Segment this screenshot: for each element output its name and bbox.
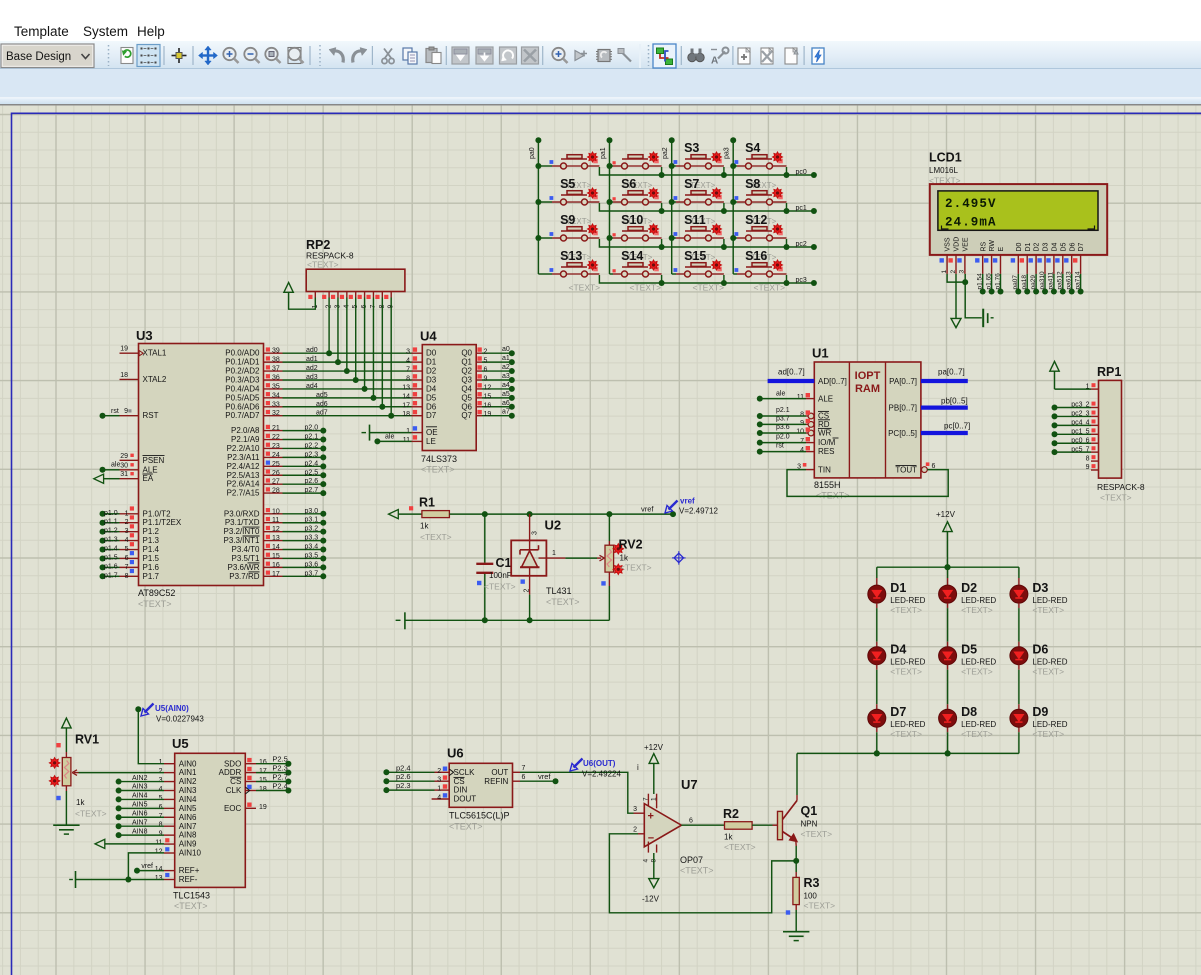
svg-text:P2.3: P2.3 [272,764,287,773]
terminal arrow at U5 AIN9 [105,843,164,845]
svg-text:6: 6 [689,818,693,825]
svg-text:<TEXT>: <TEXT> [890,667,922,677]
svg-text:7: 7 [159,813,163,820]
wire p2.0 [283,430,322,432]
svg-text:1: 1 [941,270,948,274]
svg-text:7: 7 [406,367,410,374]
svg-text:15: 15 [259,777,267,784]
resistor R3 [793,877,799,904]
svg-text:3: 3 [159,777,163,784]
svg-text:pc1: pc1 [796,205,807,212]
svg-text:vref: vref [641,504,654,513]
svg-text:2: 2 [633,826,637,833]
wire ad7 [283,415,412,417]
svg-text:8155H: 8155H [814,480,841,490]
svg-text:19: 19 [484,411,492,418]
svg-text:17: 17 [272,571,280,578]
IC U6 TLC5615 body [449,763,512,807]
svg-text:U6(OUT): U6(OUT) [583,759,616,768]
svg-text:-12V: -12V [642,895,660,904]
svg-text:9: 9 [484,375,488,382]
svg-text:<TEXT>: <TEXT> [421,465,455,475]
wire p1.2 [104,531,120,533]
wire ale to U3 ALE [104,469,120,471]
svg-text:6: 6 [522,774,526,781]
svg-text:p2.3: p2.3 [305,451,319,458]
U1 pin TOUT [922,467,928,473]
bus ad[0..7] into U1 AD[0..7] [768,379,815,383]
svg-text:AIN10: AIN10 [179,849,202,858]
svg-text:15: 15 [272,553,280,560]
svg-text:26: 26 [272,470,280,477]
svg-text:TLC1543: TLC1543 [173,891,210,901]
svg-text:<TEXT>: <TEXT> [804,901,836,911]
wire U5 REF- to ground [76,879,165,881]
wire RP2 pin6 to ad4 [364,298,366,389]
svg-text:pa1: pa1 [600,147,607,159]
svg-text:p1.6: p1.6 [104,563,118,570]
svg-text:Q2: Q2 [461,367,472,376]
svg-text:19: 19 [120,346,128,353]
U5 pin REF+ [164,870,175,872]
U5 pin AIN10 [164,852,175,854]
svg-text:P3.1/TXD: P3.1/TXD [225,518,260,527]
svg-text:18: 18 [120,372,128,379]
svg-text:9: 9 [159,831,163,838]
svg-text:4: 4 [125,537,129,544]
svg-text:p2.5: p2.5 [305,469,319,476]
svg-text:Q1: Q1 [461,358,472,367]
svg-text:<TEXT>: <TEXT> [890,605,922,615]
svg-text:pb[0..5]: pb[0..5] [941,397,968,406]
svg-text:EOC: EOC [224,804,242,813]
svg-text:AIN0: AIN0 [179,759,197,768]
LED D3 [1018,567,1020,578]
svg-text:REF-: REF- [179,875,198,884]
svg-text:<TEXT>: <TEXT> [569,283,601,293]
svg-text:3: 3 [959,270,966,274]
svg-text:D4: D4 [890,643,906,657]
wire AIN4 [121,798,164,800]
svg-text:VEE: VEE [963,237,970,251]
svg-text:Q0: Q0 [461,349,472,358]
svg-text:+: + [648,811,654,823]
push button S3 [672,165,676,167]
svg-text:1k: 1k [620,554,629,563]
svg-text:S4: S4 [745,141,760,155]
wire AIN5 [121,807,164,809]
svg-text:LED-RED: LED-RED [1032,720,1067,729]
wire AIN2 [121,781,164,783]
svg-text:D1: D1 [1025,242,1032,251]
svg-text:P1.7: P1.7 [143,572,160,581]
svg-text:P3.5/T1: P3.5/T1 [231,554,260,563]
svg-text:9: 9 [800,420,804,427]
svg-text:Q3: Q3 [461,375,472,384]
svg-text:CS: CS [454,777,465,786]
svg-text:U5(AIN0): U5(AIN0) [155,704,189,713]
svg-text:P0.3/AD3: P0.3/AD3 [225,375,260,384]
svg-text:System: System [83,24,128,39]
toolbar [0,41,1201,69]
svg-text:1: 1 [159,759,163,766]
svg-text:Q7: Q7 [461,411,472,420]
svg-text:AIN4: AIN4 [132,793,148,800]
wire LCD VDD to ground [955,274,957,319]
svg-text:1: 1 [651,797,658,801]
svg-text:4: 4 [406,358,410,365]
svg-text:XTAL2: XTAL2 [143,375,167,384]
svg-text:2: 2 [484,349,488,356]
svg-text:<TEXT>: <TEXT> [890,729,922,739]
svg-text:TIN: TIN [818,466,831,475]
svg-text:ad6: ad6 [316,401,328,408]
wire ad6 [283,406,412,408]
U5 pin CLK / wire P2.4 [245,790,256,792]
svg-text:PSEN: PSEN [143,456,165,465]
wire p2.7 [283,492,322,494]
svg-text:36: 36 [272,374,280,381]
wire ad2 [283,370,412,372]
svg-text:2: 2 [437,768,441,775]
svg-text:PC[0..5]: PC[0..5] [888,429,917,438]
svg-text:P1.0/T2: P1.0/T2 [143,509,172,518]
U4 pin Q6 / wire a6 [476,406,482,408]
svg-text:p1.1: p1.1 [104,519,118,526]
power -12V to U7 pin 4 [647,842,649,853]
svg-text:3: 3 [633,806,637,813]
svg-text:C1: C1 [496,556,512,570]
svg-text:p1.2: p1.2 [104,528,118,535]
wire p3.2 [283,531,322,533]
RP1 pin 3 [1091,415,1099,417]
U1 pin TIN [806,469,814,471]
svg-text:34: 34 [272,392,280,399]
wire AIN8 [121,834,164,836]
svg-text:DIN: DIN [454,786,468,795]
svg-text:AIN3: AIN3 [179,786,197,795]
svg-text:AIN6: AIN6 [179,813,197,822]
svg-text:V=0.0227943: V=0.0227943 [156,715,204,724]
svg-text:p2.0: p2.0 [776,434,790,441]
LED D2 [947,567,949,578]
svg-text:S12: S12 [745,213,767,227]
svg-text:VSS: VSS [945,237,952,251]
wire pc4 to RP1 [1056,424,1091,426]
U3 right pins P2 [264,430,283,432]
svg-text:P1.5: P1.5 [143,554,160,563]
svg-text:D2: D2 [426,367,437,376]
wire p2.3 [283,456,322,458]
svg-text:D4: D4 [1052,242,1059,251]
U4 pin D3 [412,379,423,381]
svg-text:S3: S3 [684,141,699,155]
svg-text:D4: D4 [426,384,437,393]
svg-text:AIN2: AIN2 [132,775,148,782]
voltage probe U6(OUT) [574,759,583,768]
svg-text:S16: S16 [745,249,767,263]
page selector combo [1,44,94,68]
svg-text:39: 39 [272,348,280,355]
svg-text:9: 9 [1086,464,1090,471]
svg-text:D9: D9 [1032,705,1048,719]
wire vref to U5 REF+ [139,870,164,872]
svg-text:U3: U3 [136,328,153,343]
svg-text:ad3: ad3 [306,374,318,381]
U4 pin D6 [412,406,423,408]
svg-text:pc2: pc2 [796,241,807,248]
wire pc3 to RP1 [1056,407,1091,409]
svg-text:P2.3/A11: P2.3/A11 [227,453,260,462]
svg-text:ad1: ad1 [306,356,318,363]
svg-text:CLK: CLK [226,786,242,795]
svg-text:11: 11 [797,394,804,401]
svg-text:P0.7/AD7: P0.7/AD7 [225,411,260,420]
svg-text:R2: R2 [723,807,739,821]
svg-text:p2.6: p2.6 [396,772,411,781]
svg-text:19: 19 [259,804,267,811]
svg-text:P2.5: P2.5 [272,755,287,764]
svg-text:a0: a0 [502,346,510,353]
U5 pin AIN9 [164,843,175,845]
svg-text:TL431: TL431 [546,586,572,596]
svg-text:p2.0: p2.0 [305,425,319,432]
svg-text:a3: a3 [502,373,510,380]
svg-text:24: 24 [272,452,280,459]
U7 pin 3 (+) [634,812,645,814]
U4 pin Q2 / wire a2 [476,370,482,372]
svg-text:p3.5: p3.5 [305,552,319,559]
svg-text:XTAL1: XTAL1 [143,349,167,358]
svg-text:p2.4: p2.4 [396,763,411,772]
svg-text:p2.3: p2.3 [396,781,411,790]
svg-text:1k: 1k [420,522,429,531]
wire p3.1 [283,522,322,524]
svg-text:R1: R1 [419,496,435,510]
transistor Q1 NPN [778,811,783,839]
svg-text:P2.2/A10: P2.2/A10 [227,444,260,453]
svg-text:AIN6: AIN6 [132,810,148,817]
svg-text:LED-RED: LED-RED [961,658,996,667]
svg-text:AIN7: AIN7 [132,819,148,826]
svg-text:D8: D8 [961,705,977,719]
svg-text:U2: U2 [545,518,562,533]
RP1 pin 8 [1091,460,1099,462]
svg-text:7: 7 [800,438,804,445]
wire RP2 pin9 to ad7 [390,298,392,416]
svg-text:<TEXT>: <TEXT> [307,259,339,269]
svg-text:100: 100 [804,892,818,901]
svg-text:P0.2/AD2: P0.2/AD2 [225,367,260,376]
wire pc2 to RP1 [1056,415,1091,417]
svg-text:<TEXT>: <TEXT> [961,729,993,739]
svg-text:a2: a2 [502,364,510,371]
U4 pin D4 [412,388,423,390]
svg-text:LED-RED: LED-RED [890,720,925,729]
LED D8 [947,665,949,670]
svg-text:17: 17 [259,768,267,775]
svg-text:<TEXT>: <TEXT> [75,809,107,819]
svg-text:P0.6/AD6: P0.6/AD6 [225,402,260,411]
svg-text:Q4: Q4 [461,384,472,393]
wire pc1 to RP1 [1056,433,1091,435]
svg-text:8: 8 [125,573,129,580]
svg-text:D7: D7 [890,705,906,719]
U4 pin Q4 / wire a4 [476,388,482,390]
U5 pin AIN2 [164,781,175,783]
svg-text:S13: S13 [560,249,582,263]
voltage probe U5(AIN0) [145,704,154,713]
U4 pin OE [412,432,423,434]
push button S2 [610,165,614,167]
terminal arrow input to R1 [389,510,399,519]
svg-text:6: 6 [932,463,936,470]
svg-text:p3.2: p3.2 [305,526,319,533]
svg-text:2: 2 [950,270,957,274]
svg-text:6: 6 [159,804,163,811]
svg-text:OE: OE [426,428,438,437]
power terminal above RV1 [62,718,71,728]
svg-text:p3.6: p3.6 [305,561,319,568]
svg-text:32: 32 [272,410,280,417]
svg-text:21: 21 [272,425,280,432]
svg-text:pc[0..7]: pc[0..7] [944,422,970,431]
svg-text:LED-RED: LED-RED [1032,596,1067,605]
svg-text:1: 1 [406,428,410,435]
svg-text:S6: S6 [621,177,636,191]
svg-text:<TEXT>: <TEXT> [816,491,850,501]
svg-text:S15: S15 [684,249,706,263]
svg-text:33: 33 [272,401,280,408]
wire p1.1 [104,522,120,524]
U6 pin DOUT [432,798,450,800]
svg-text:P1.6: P1.6 [143,563,160,572]
svg-text:U7: U7 [681,777,698,792]
wire p1.7 [104,575,120,577]
U4 pin Q1 / wire a1 [476,361,482,363]
svg-text:AIN2: AIN2 [179,777,197,786]
wire p2.5 [283,474,322,476]
U5 pin ADDR / wire P2.3 [245,772,256,774]
svg-text:2: 2 [159,768,163,775]
svg-text:<TEXT>: <TEXT> [1032,729,1064,739]
wire RP2 pin2 to ad0 [328,298,330,354]
wire AIN7 [121,825,164,827]
svg-text:A: A [711,56,718,67]
svg-text:8: 8 [800,412,804,419]
svg-text:3: 3 [532,531,539,535]
svg-text:P2.7/A15: P2.7/A15 [227,489,260,498]
svg-text:<TEXT>: <TEXT> [680,866,714,876]
wire LED top bus [877,566,1019,568]
LCD data/control wires [982,274,984,292]
svg-text:a6: a6 [502,400,510,407]
U3 right pins P0 (ad bus) [264,352,283,354]
svg-text:P3.6/WR: P3.6/WR [227,563,259,572]
U5 pin AIN8 [164,834,175,836]
svg-text:SDO: SDO [224,759,241,768]
wire p3.0 [283,513,322,515]
svg-text:p3.0: p3.0 [305,508,319,515]
svg-text:LED-RED: LED-RED [961,596,996,605]
svg-text:P2.6/A14: P2.6/A14 [227,480,260,489]
svg-text:p3.1: p3.1 [305,517,319,524]
svg-text:25: 25 [272,461,280,468]
svg-text:TOUT: TOUT [895,466,917,475]
power terminal for RP1 pin 1 [1055,388,1092,390]
svg-text:38: 38 [272,357,280,364]
svg-text:RV1: RV1 [75,733,99,747]
svg-text:P1.3: P1.3 [143,536,160,545]
U4 pin LE / wire ale [412,440,423,442]
wire ad5 [283,397,412,399]
U3 left pins [120,352,139,354]
svg-text:OUT: OUT [491,768,508,777]
wire RP2 pin3 to ad1 [337,298,339,363]
U6 pin DIN / wire p2.3 [435,789,450,791]
wire RP2 pin7 to ad5 [372,298,374,398]
svg-text:ADDR: ADDR [219,768,242,777]
U7 pin 2 (-) / feedback wire [638,833,644,835]
svg-text:P0.4/AD4: P0.4/AD4 [225,384,260,393]
svg-text:U6: U6 [447,746,464,761]
svg-text:OP07: OP07 [680,855,703,865]
resistor pack RP2 body [306,269,405,291]
U1 pin RES / wire rst [806,451,814,453]
svg-text:8: 8 [1086,455,1090,462]
svg-text:8: 8 [159,822,163,829]
op-amp U7 OP07 [644,804,681,847]
svg-text:CS: CS [230,777,241,786]
svg-text:13: 13 [272,535,280,542]
svg-text:<TEXT>: <TEXT> [546,597,580,607]
wire p2.1 [283,439,322,441]
wire AIN3 [121,789,164,791]
wire p3.5 [283,557,322,559]
svg-text:D7: D7 [426,411,437,420]
svg-text:D5: D5 [426,393,437,402]
U4 pin D2 [412,370,423,372]
svg-text:AIN3: AIN3 [132,784,148,791]
svg-text:<TEXT>: <TEXT> [630,283,662,293]
svg-text:ALE: ALE [818,395,833,404]
svg-text:D6: D6 [1069,242,1076,251]
svg-text:D0: D0 [426,349,437,358]
svg-text:31: 31 [120,471,128,478]
svg-text:10: 10 [272,508,280,515]
svg-text:11: 11 [272,517,279,524]
svg-text:vref: vref [141,863,153,870]
svg-text:E: E [998,247,1005,252]
svg-text:<TEXT>: <TEXT> [961,605,993,615]
svg-text:6: 6 [484,367,488,374]
svg-text:p3.4: p3.4 [305,544,319,551]
U1 pin WR / wire p3.6 [808,430,814,436]
svg-text:7: 7 [643,797,650,801]
svg-text:Base Design: Base Design [6,51,71,63]
wire U5 AIN10 to ground rail [128,853,164,880]
wire pc5 to RP1 [1056,451,1091,453]
svg-text:3: 3 [125,528,129,535]
U1 pin RD / wire p3.7 [808,422,814,428]
svg-text:74LS373: 74LS373 [421,454,457,464]
svg-text:8: 8 [406,375,410,382]
svg-text:<TEXT>: <TEXT> [174,901,208,911]
toolbar icons [108,45,110,66]
svg-text:p2.4: p2.4 [305,460,319,467]
RP1 pin 7 [1091,451,1099,453]
svg-text:LED-RED: LED-RED [961,720,996,729]
